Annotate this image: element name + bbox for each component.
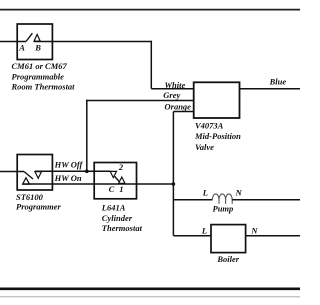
pin label C [109,184,115,194]
cylinder stat blade [115,176,122,184]
svg-text:Programmable: Programmable [12,71,65,81]
svg-text:V4073A: V4073A [195,121,224,131]
junction dot HW Off / grey [85,169,89,173]
svg-text:N: N [235,187,243,197]
boiler box [211,225,246,253]
svg-text:L: L [201,226,207,236]
boiler N wire [246,235,300,237]
label ST6100 Programmer [16,192,62,211]
cylinder thermostat L641A box [94,163,136,199]
label Orange [165,101,192,111]
svg-text:C: C [109,184,115,194]
programmer ST6100 box [17,155,52,191]
pump N wire [232,199,300,201]
label L pump [202,187,208,197]
svg-text:HW Off: HW Off [54,160,84,170]
svg-text:HW On: HW On [54,173,82,183]
svg-text:Mid-Position: Mid-Position [194,131,241,141]
svg-text:2: 2 [118,162,124,172]
HW Off wire to cylinder stat contact 2 [35,170,110,172]
pump L wire [173,199,212,201]
room thermostat switch blade [26,33,32,41]
svg-text:Cylinder: Cylinder [102,213,133,223]
label Pump [213,203,234,213]
label HW On [54,173,82,183]
label Boiler [216,254,239,264]
programmer switch blade [24,172,33,180]
label White [165,80,186,90]
label N pump [235,187,243,197]
svg-text:N: N [250,226,258,236]
svg-text:Room Thermostat: Room Thermostat [11,82,76,92]
svg-text:Valve: Valve [195,142,214,152]
svg-text:Blue: Blue [269,77,287,87]
room thermostat CM61/CM67 box [17,24,52,60]
label CM61 or CM67 Programmable Room Thermostat [11,61,76,92]
svg-text:CM61 or CM67: CM61 or CM67 [12,61,68,71]
svg-text:Orange: Orange [165,101,192,111]
svg-text:L641A: L641A [101,203,126,213]
white wire to valve [151,88,194,90]
grey wire: up from HW Off junction and across to valve [86,100,194,172]
bottom border [0,289,300,297]
cylinder stat contact 2 triangle [110,171,116,177]
HW On wire through cylinder stat C-1 to orange drop [23,183,174,185]
svg-text:Programmer: Programmer [16,201,62,211]
svg-text:Thermostat: Thermostat [102,223,143,233]
label Blue [269,77,287,87]
label V4073A Mid-Position Valve [194,121,241,152]
terminal label B [34,43,41,53]
svg-text:L: L [202,187,208,197]
label HW Off [54,160,84,170]
terminal label A [18,43,25,53]
label N boiler [250,226,258,236]
svg-text:B: B [34,43,41,53]
svg-text:Grey: Grey [163,90,180,100]
pin label 2 [118,162,124,172]
cylinder stat contact 1 triangle [119,177,126,183]
programmer HW Off contact triangle [35,172,42,179]
orange wire stub to valve [173,111,194,113]
svg-text:Boiler: Boiler [216,254,239,264]
blue wire from valve to neutral [240,88,301,90]
boiler L wire [173,235,211,237]
top border [0,9,300,11]
junction dot HW demand / orange [172,182,176,186]
wire: mains live to room thermostat A [0,41,26,43]
label L boiler [201,226,207,236]
room thermostat contact B triangle [34,34,40,41]
wire: mains live to programmer [0,171,24,173]
orange feed drop wire [172,112,174,236]
label Grey [163,90,180,100]
svg-text:White: White [165,80,186,90]
svg-text:Pump: Pump [213,203,234,213]
programmer HW On contact triangle [23,178,30,184]
wire: room thermostat B to corner [34,41,152,43]
svg-text:A: A [18,43,25,53]
wire: down from room stat to white [150,41,152,89]
svg-text:1: 1 [119,184,123,194]
pump coil [212,194,232,204]
label L641A Cylinder Thermostat [101,203,143,234]
mid-position valve V4073A box [194,82,240,118]
pin label 1 [119,184,123,194]
